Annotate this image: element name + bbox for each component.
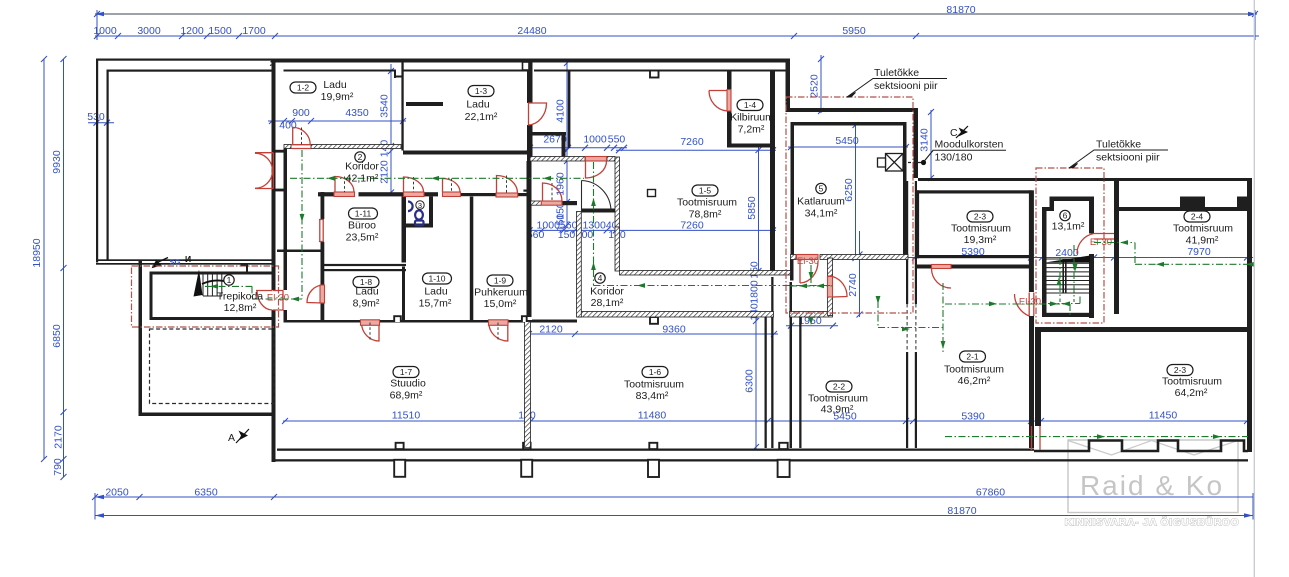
svg-text:Puhkeruum: Puhkeruum — [474, 287, 528, 299]
wall wing bottom a — [96, 259, 272, 261]
svg-text:550: 550 — [608, 134, 626, 146]
wall vest south — [582, 209, 616, 213]
svg-text:46,2m²: 46,2m² — [958, 375, 991, 387]
svg-text:1-3: 1-3 — [475, 86, 488, 96]
svg-text:1: 1 — [227, 275, 232, 285]
wall step down — [914, 112, 919, 178]
room tag 2-3 — [1167, 365, 1193, 376]
wall 2-4 pil a — [1180, 197, 1205, 208]
wall wing inner left — [107, 70, 109, 261]
room tag 2-2 — [826, 381, 852, 392]
svg-text:El-30: El-30 — [267, 293, 289, 304]
room circle 4 — [595, 273, 605, 283]
pilaster bump 4 — [779, 443, 788, 449]
room tag 2-4 — [1184, 211, 1210, 222]
wall 1-3 bottom — [403, 151, 528, 155]
door centerline d 1-9s — [497, 323, 499, 341]
wall 1-6/2-2 b1 — [790, 282, 793, 448]
hatched wall corr4 south a — [577, 312, 774, 318]
svg-text:24480: 24480 — [517, 25, 546, 37]
svg-text:2: 2 — [270, 59, 274, 68]
svg-text:Raid & Ko: Raid & Ko — [1080, 470, 1224, 501]
wall wc east — [429, 197, 433, 228]
wall buroo bottom1 — [321, 264, 407, 266]
red door double door ext arc top — [255, 153, 273, 171]
room tag 1-7 — [393, 367, 419, 378]
door centerline d 1-10 — [451, 179, 453, 193]
wall rooms top a — [318, 192, 334, 196]
wall 1-3 right b — [527, 125, 533, 161]
svg-text:130/180: 130/180 — [935, 152, 973, 164]
wall notch 1-8 — [394, 316, 401, 322]
wall left inner low — [284, 310, 288, 321]
svg-text:1-11: 1-11 — [355, 209, 372, 219]
red door door kvest east — [833, 277, 848, 298]
svg-text:41,9m²: 41,9m² — [1186, 235, 1219, 247]
red door door 1-8 left — [307, 285, 324, 303]
door centerline d buroo — [344, 177, 346, 193]
stairs trepikoda — [203, 272, 222, 296]
top wall notch a — [650, 71, 659, 78]
svg-text:2-3: 2-3 — [1174, 365, 1187, 375]
svg-text:1000: 1000 — [93, 25, 117, 37]
svg-text:El-30: El-30 — [1019, 297, 1041, 308]
green route katla drop — [810, 265, 812, 283]
wall 1-4 left a — [727, 70, 732, 89]
wall 1-4 bottom — [727, 144, 771, 148]
pilaster corr4 notch — [650, 317, 658, 324]
wall stuudio top left — [284, 320, 321, 323]
svg-text:2-3: 2-3 — [974, 212, 987, 222]
wall step wall — [786, 108, 919, 112]
svg-text:2-2: 2-2 — [833, 382, 846, 392]
svg-text:Tuletõkke: Tuletõkke — [874, 67, 919, 79]
svg-text:2050: 2050 — [105, 487, 129, 499]
pilaster pil 3 — [648, 460, 659, 477]
svg-text:5450: 5450 — [835, 135, 859, 147]
red door threshold 1-8 left — [320, 285, 325, 303]
green route trep inner — [205, 286, 284, 299]
green route stair top door — [1094, 243, 1135, 265]
wall stair step — [1050, 197, 1055, 212]
svg-text:3000: 3000 — [137, 25, 161, 37]
red door threshold wc corr — [404, 192, 425, 197]
stairs wedge arrow — [1045, 256, 1090, 263]
red door door 2-1 bottom red — [1032, 426, 1041, 450]
red door double door ext arc bot — [255, 171, 273, 188]
svg-text:SG: SG — [170, 258, 181, 267]
walls — [96, 59, 1252, 463]
red door double door ext frame — [255, 153, 273, 189]
red door door 1-9 top — [497, 176, 518, 194]
hatched wall katla bottom a — [791, 255, 797, 260]
hatched wall strip wall a — [531, 201, 542, 205]
green route corr4 main — [594, 285, 833, 287]
wall buroo right — [402, 197, 407, 263]
red door door stair exit — [1015, 293, 1034, 317]
wall rooms top b — [359, 192, 404, 196]
wall wing top outer — [96, 59, 272, 61]
wall left inner upper — [284, 149, 288, 251]
svg-text:5950: 5950 — [842, 25, 866, 37]
wall stair notch — [1042, 207, 1054, 211]
wall 1-6/2-2 a2 — [771, 277, 773, 448]
hatched wall vest east low — [615, 227, 620, 271]
wall 1-4 left b — [727, 111, 732, 148]
wall 2-1 top a — [917, 265, 932, 269]
svg-text:Ladu: Ladu — [424, 286, 448, 298]
crenellated bottom wall right wing — [1034, 441, 1248, 452]
svg-text:11480: 11480 — [638, 410, 667, 422]
door centerline d 1-9 — [506, 176, 508, 194]
tuletokke annotation 1 — [847, 79, 947, 98]
wall wing bottom b — [96, 263, 272, 265]
green route vest down — [284, 150, 302, 299]
svg-text:Katlaruum: Katlaruum — [797, 196, 845, 208]
red door door 2-1 top — [932, 269, 952, 289]
wall inner top line c — [534, 70, 789, 72]
wall 1-6/2-2 a1 — [765, 315, 767, 448]
svg-text:78,8m²: 78,8m² — [689, 209, 722, 221]
svg-text:1-5: 1-5 — [699, 186, 712, 196]
svg-text:6850: 6850 — [51, 324, 63, 348]
svg-text:5: 5 — [819, 184, 824, 194]
red door door 1-2 corr — [293, 127, 311, 144]
door centerline d strip — [551, 183, 553, 201]
svg-text:1-6: 1-6 — [649, 367, 662, 377]
hatched wall corr2 north a — [284, 145, 291, 149]
door centerline d wc — [413, 177, 415, 192]
hatched wall vest east — [615, 157, 620, 227]
wall jamb up — [274, 150, 284, 153]
red door threshold 1-9 stuudio — [489, 320, 509, 326]
svg-text:Ladu: Ladu — [466, 99, 490, 111]
room tag 1-10 — [423, 273, 452, 284]
svg-text:1-2: 1-2 — [297, 83, 310, 93]
green route vest4 up — [593, 162, 595, 286]
red door door 1-10 corr — [443, 179, 461, 193]
room circle 5 — [816, 183, 826, 193]
green route corr2 main — [290, 177, 584, 179]
red door threshold kvest east — [828, 277, 833, 298]
hatched wall corr2 north b — [311, 145, 401, 149]
wall 1-9 right — [527, 161, 532, 317]
green route stair g1 — [1060, 245, 1074, 302]
svg-text:1700: 1700 — [242, 25, 266, 37]
wall rooms top e — [518, 193, 531, 196]
wall left outer lower — [272, 310, 276, 462]
room tag 2-1 — [960, 351, 986, 362]
wall 2-4 top — [1117, 207, 1252, 211]
wall left outer upper — [272, 59, 276, 291]
wall joint cap a — [765, 315, 774, 317]
wall 2-2/2-3 R2 — [915, 352, 917, 448]
wall 2-4 left — [1114, 181, 1119, 314]
wall buroo left a — [321, 192, 325, 219]
svg-text:6300: 6300 — [744, 369, 756, 393]
svg-text:34,1m²: 34,1m² — [805, 208, 838, 220]
wc fixtures — [408, 202, 424, 226]
room tag 1-6 — [642, 367, 668, 378]
svg-text:7,2m²: 7,2m² — [738, 124, 765, 136]
svg-text:1000: 1000 — [583, 134, 607, 146]
wall 1-10/1-9 — [470, 197, 474, 321]
pilaster pil 1 — [394, 460, 405, 477]
wall right wing top wall — [918, 178, 1252, 181]
svg-text:1-10: 1-10 — [428, 274, 445, 284]
wall 1-5 right wall — [770, 70, 775, 271]
svg-text:4350: 4350 — [345, 107, 369, 119]
svg-text:4100: 4100 — [555, 99, 567, 123]
wall row bottom a — [318, 320, 362, 323]
svg-text:6350: 6350 — [194, 487, 218, 499]
hatched wall corr4 west — [577, 212, 582, 318]
svg-text:81870: 81870 — [947, 505, 976, 517]
page edge — [1253, 0, 1255, 577]
svg-text:19,9m²: 19,9m² — [321, 91, 354, 103]
svg-text:11450: 11450 — [1149, 410, 1178, 422]
svg-text:Tootmisruum: Tootmisruum — [1162, 376, 1222, 388]
svg-text:12,8m²: 12,8m² — [224, 302, 257, 314]
svg-text:22,1m²: 22,1m² — [465, 111, 498, 123]
svg-text:68,9m²: 68,9m² — [390, 390, 423, 402]
logo Raid & Ko — [1065, 440, 1240, 529]
wall 1-3 stub — [406, 102, 443, 106]
room tag 1-4 — [737, 100, 763, 111]
green route bottom right — [945, 436, 1248, 438]
hatched walls — [284, 145, 908, 448]
svg-text:7260: 7260 — [680, 220, 704, 232]
red door threshold 1-8 stuudio — [361, 320, 380, 326]
wall 2-3u left — [917, 190, 920, 258]
svg-text:Ladu: Ladu — [323, 79, 347, 91]
wall corner bl — [272, 416, 276, 462]
red door threshold 1-9 top — [496, 193, 518, 197]
svg-text:8,9m²: 8,9m² — [353, 298, 380, 310]
svg-text:3140: 3140 — [919, 128, 931, 152]
svg-text:19,3m²: 19,3m² — [964, 234, 997, 246]
tuletokke annotation 2 — [1069, 150, 1168, 168]
svg-text:3: 3 — [418, 201, 422, 210]
wall right wall — [1247, 178, 1252, 452]
wall row bottom b — [380, 320, 489, 323]
svg-text:Stuudio: Stuudio — [390, 378, 426, 390]
svg-text:1200: 1200 — [180, 25, 204, 37]
svg-text:2520: 2520 — [809, 74, 821, 98]
svg-text:2170: 2170 — [53, 425, 65, 449]
svg-text:790: 790 — [52, 458, 64, 476]
wall 2-4 pil b — [1237, 197, 1247, 208]
wall jamb dn — [274, 189, 284, 192]
red door door buroo left — [319, 220, 324, 242]
wall wing outer left — [96, 59, 98, 263]
wall wall 1-2/1-3 — [401, 62, 403, 151]
wall 2-2/2-3 L1 — [906, 181, 908, 304]
svg-text:Tootmisruum: Tootmisruum — [1173, 223, 1233, 235]
wall row bottom c — [508, 320, 533, 323]
svg-text:11510: 11510 — [392, 410, 421, 422]
hatched wall katla bottom b — [820, 255, 908, 260]
wall 2-1 right b — [1029, 316, 1034, 448]
stairs arrow trepikoda — [194, 270, 203, 297]
wall 2-3u bottom — [917, 255, 1032, 258]
wall shaft wall — [568, 70, 571, 148]
svg-text:Büroo: Büroo — [348, 220, 376, 232]
wall corr notch side — [562, 136, 566, 157]
pilaster bump 3 — [649, 443, 657, 449]
svg-text:1-4: 1-4 — [744, 100, 757, 110]
wall strip bottom — [532, 320, 577, 323]
green route right wing — [1135, 263, 1252, 265]
wall stair right a — [1089, 197, 1094, 234]
room tag 1-11 — [349, 208, 378, 219]
room tag 1-5 — [692, 185, 718, 196]
wall 2-1 right a — [1029, 190, 1034, 292]
red door threshold 1-10 corr — [443, 192, 461, 197]
svg-text:sektsiooni piir: sektsiooni piir — [874, 80, 938, 92]
wall rooms bottom line — [277, 449, 1034, 451]
wall 1-6/2-2 b2 — [799, 315, 801, 448]
room tag 2-3 — [967, 211, 993, 222]
svg-text:13,1m²: 13,1m² — [1052, 221, 1085, 233]
wall stair left — [1042, 207, 1047, 317]
svg-text:9360: 9360 — [662, 323, 686, 335]
wall rooms top c — [424, 192, 438, 196]
wall stair right b — [1089, 254, 1094, 318]
svg-text:2120: 2120 — [539, 323, 563, 335]
red door door wc corr — [404, 177, 424, 192]
wall 2-1 top b — [951, 265, 1030, 269]
svg-text:150: 150 — [749, 261, 761, 279]
svg-text:Moodulkorsten: Moodulkorsten — [935, 139, 1004, 151]
svg-text:81870: 81870 — [946, 4, 975, 16]
red door door vest jambs — [586, 157, 607, 162]
section marker top-left (flag) — [152, 260, 162, 269]
red fire boundaries dashed — [132, 97, 1105, 327]
door centerline d 1-8s — [369, 323, 371, 341]
svg-text:2120: 2120 — [379, 160, 391, 184]
room labels — [217, 79, 1233, 416]
svg-text:Kilbiruum: Kilbiruum — [730, 112, 774, 124]
svg-text:4: 4 — [598, 273, 603, 283]
pilaster bump 2 — [523, 443, 531, 449]
svg-text:42,1m²: 42,1m² — [346, 173, 379, 185]
svg-text:Tootmisruum: Tootmisruum — [951, 223, 1011, 235]
wall trep top — [150, 272, 275, 275]
room circle 6 — [1060, 210, 1070, 220]
svg-text:18950: 18950 — [31, 238, 43, 267]
wall corr notch top — [528, 132, 566, 136]
green route g304 — [945, 304, 1070, 315]
wall trep left — [150, 272, 153, 321]
dashed terrace rectangle — [150, 329, 275, 404]
red door threshold vest top — [586, 157, 607, 162]
hatched wall kvest east a — [828, 258, 833, 276]
room tag 1-8 — [353, 277, 379, 288]
svg-text:28,1m²: 28,1m² — [591, 297, 624, 309]
svg-text:6: 6 — [1063, 211, 1068, 221]
top wall notch b — [523, 62, 530, 70]
room tag 1-2 — [290, 82, 316, 93]
svg-text:900: 900 — [292, 107, 310, 119]
room tag 1-9 — [487, 275, 513, 286]
svg-text:83,4m²: 83,4m² — [636, 390, 669, 402]
red door door buroo corr — [335, 177, 354, 193]
wall joint cap b — [790, 315, 802, 317]
wall 2-2/2-3 R1 — [915, 181, 917, 304]
wall strip wall b — [562, 201, 577, 205]
wall 1-3 right a — [527, 62, 533, 103]
wall 2-3 left — [1035, 327, 1041, 426]
wall inner top line a — [284, 70, 397, 72]
wall vest step wall — [277, 250, 322, 253]
red door door katla el30 — [800, 260, 818, 284]
wall inner top line b — [402, 70, 528, 72]
svg-text:2-1: 2-1 — [966, 352, 979, 362]
hatched wall stuudio/1-6 — [525, 322, 531, 448]
wall wing south — [139, 413, 275, 417]
svg-text:El-30: El-30 — [797, 256, 819, 267]
svg-text:5390: 5390 — [961, 410, 985, 422]
top overall line gray — [95, 13, 1257, 15]
wall katla top — [791, 122, 907, 126]
red door door 1-4 — [709, 91, 727, 112]
wall katla right — [903, 122, 907, 259]
green route stair bot — [1048, 296, 1080, 304]
svg-text:3540: 3540 — [379, 94, 391, 118]
room tag 1-3 — [468, 86, 494, 97]
red door threshold buroo corr — [334, 192, 355, 197]
hatched wall hatch east a — [530, 157, 585, 162]
svg-text:И: И — [185, 254, 191, 264]
red door threshold katla el30 — [797, 255, 819, 260]
svg-text:1500: 1500 — [208, 25, 232, 37]
svg-text:67860: 67860 — [976, 487, 1005, 499]
hatched wall corr4 south b — [790, 312, 833, 318]
red door door stair el30 — [1077, 234, 1114, 254]
wall katla left — [791, 122, 795, 259]
svg-text:Koridor: Koridor — [590, 286, 624, 298]
room circle 1 — [224, 275, 234, 285]
wall buroo bottom2 — [321, 269, 407, 271]
svg-text:Tootmisruum: Tootmisruum — [944, 364, 1004, 376]
black door vestibule — [582, 181, 612, 212]
wall end wall — [786, 59, 791, 113]
green route kvest — [790, 285, 832, 287]
wall trep bottom — [150, 317, 275, 320]
svg-text:400: 400 — [279, 120, 297, 132]
svg-text:KINNISVARA- JA ÕIGUSBÜROO: KINNISVARA- JA ÕIGUSBÜROO — [1065, 516, 1240, 529]
svg-text:Tuletõkke: Tuletõkke — [1096, 139, 1141, 151]
svg-text:1-7: 1-7 — [400, 367, 413, 377]
red door door vest top — [586, 161, 607, 178]
pilaster pil 4 — [778, 460, 790, 477]
svg-text:Tootmisruum: Tootmisruum — [677, 197, 737, 209]
wall 2-3u top — [917, 190, 1032, 193]
green escape routes — [205, 150, 1252, 437]
svg-text:23,5m²: 23,5m² — [346, 232, 379, 244]
red door threshold strip — [541, 201, 562, 205]
red door threshold 2-1 top — [932, 265, 952, 269]
svg-text:Trepikoda: Trepikoda — [217, 291, 263, 303]
wall notch 1-9 — [522, 316, 527, 322]
stairs in stairwell 6 — [1047, 259, 1090, 293]
wall stair bottom — [1042, 313, 1094, 317]
svg-text:7970: 7970 — [1187, 246, 1211, 258]
wall kvest west a — [790, 260, 794, 281]
wall 1-9 top notch — [523, 190, 530, 192]
wall wing top inner — [107, 70, 272, 72]
